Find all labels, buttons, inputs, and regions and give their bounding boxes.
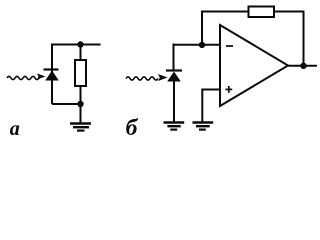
svg-text:б: б bbox=[126, 115, 139, 141]
feedback resistor R2 bbox=[249, 7, 275, 18]
junction dot (output node) bbox=[300, 63, 306, 69]
ground (circuit a) bbox=[70, 104, 91, 131]
ground (non-inverting input) bbox=[193, 123, 214, 130]
junction dot (top, circuit a) bbox=[77, 41, 83, 47]
wire: op-amp output bbox=[288, 65, 317, 67]
junction dot (inverting input node) bbox=[199, 42, 205, 48]
minus sign (inverting input) bbox=[226, 45, 233, 47]
photodiode VD2 (circuit b) bbox=[166, 71, 182, 82]
light arrow (wavy) into photodiode b bbox=[126, 74, 168, 81]
wire: photodiode b to ground bbox=[173, 81, 175, 122]
wire: photodiode top corner to inverting input bbox=[174, 44, 221, 71]
plus sign (non-inverting input) bbox=[225, 86, 232, 93]
wire: left branch vertical (photodiode branch) bbox=[51, 44, 53, 105]
wire: non-inverting input to ground bbox=[202, 90, 220, 123]
wire: bottom bus of circuit a bbox=[52, 103, 81, 105]
light arrow (wavy) into photodiode a bbox=[7, 74, 46, 80]
ground (photodiode b) bbox=[164, 123, 185, 130]
junction dot (bottom, circuit a) bbox=[77, 101, 83, 107]
photodiode VD1 (circuit a) bbox=[44, 70, 59, 81]
svg-text:а: а bbox=[10, 118, 20, 140]
wire: top bus of circuit a bbox=[52, 44, 101, 46]
resistor R1 (circuit a) bbox=[75, 45, 86, 105]
wire: feedback loop up and over bbox=[202, 12, 304, 66]
op-amp U1 bbox=[220, 25, 288, 106]
